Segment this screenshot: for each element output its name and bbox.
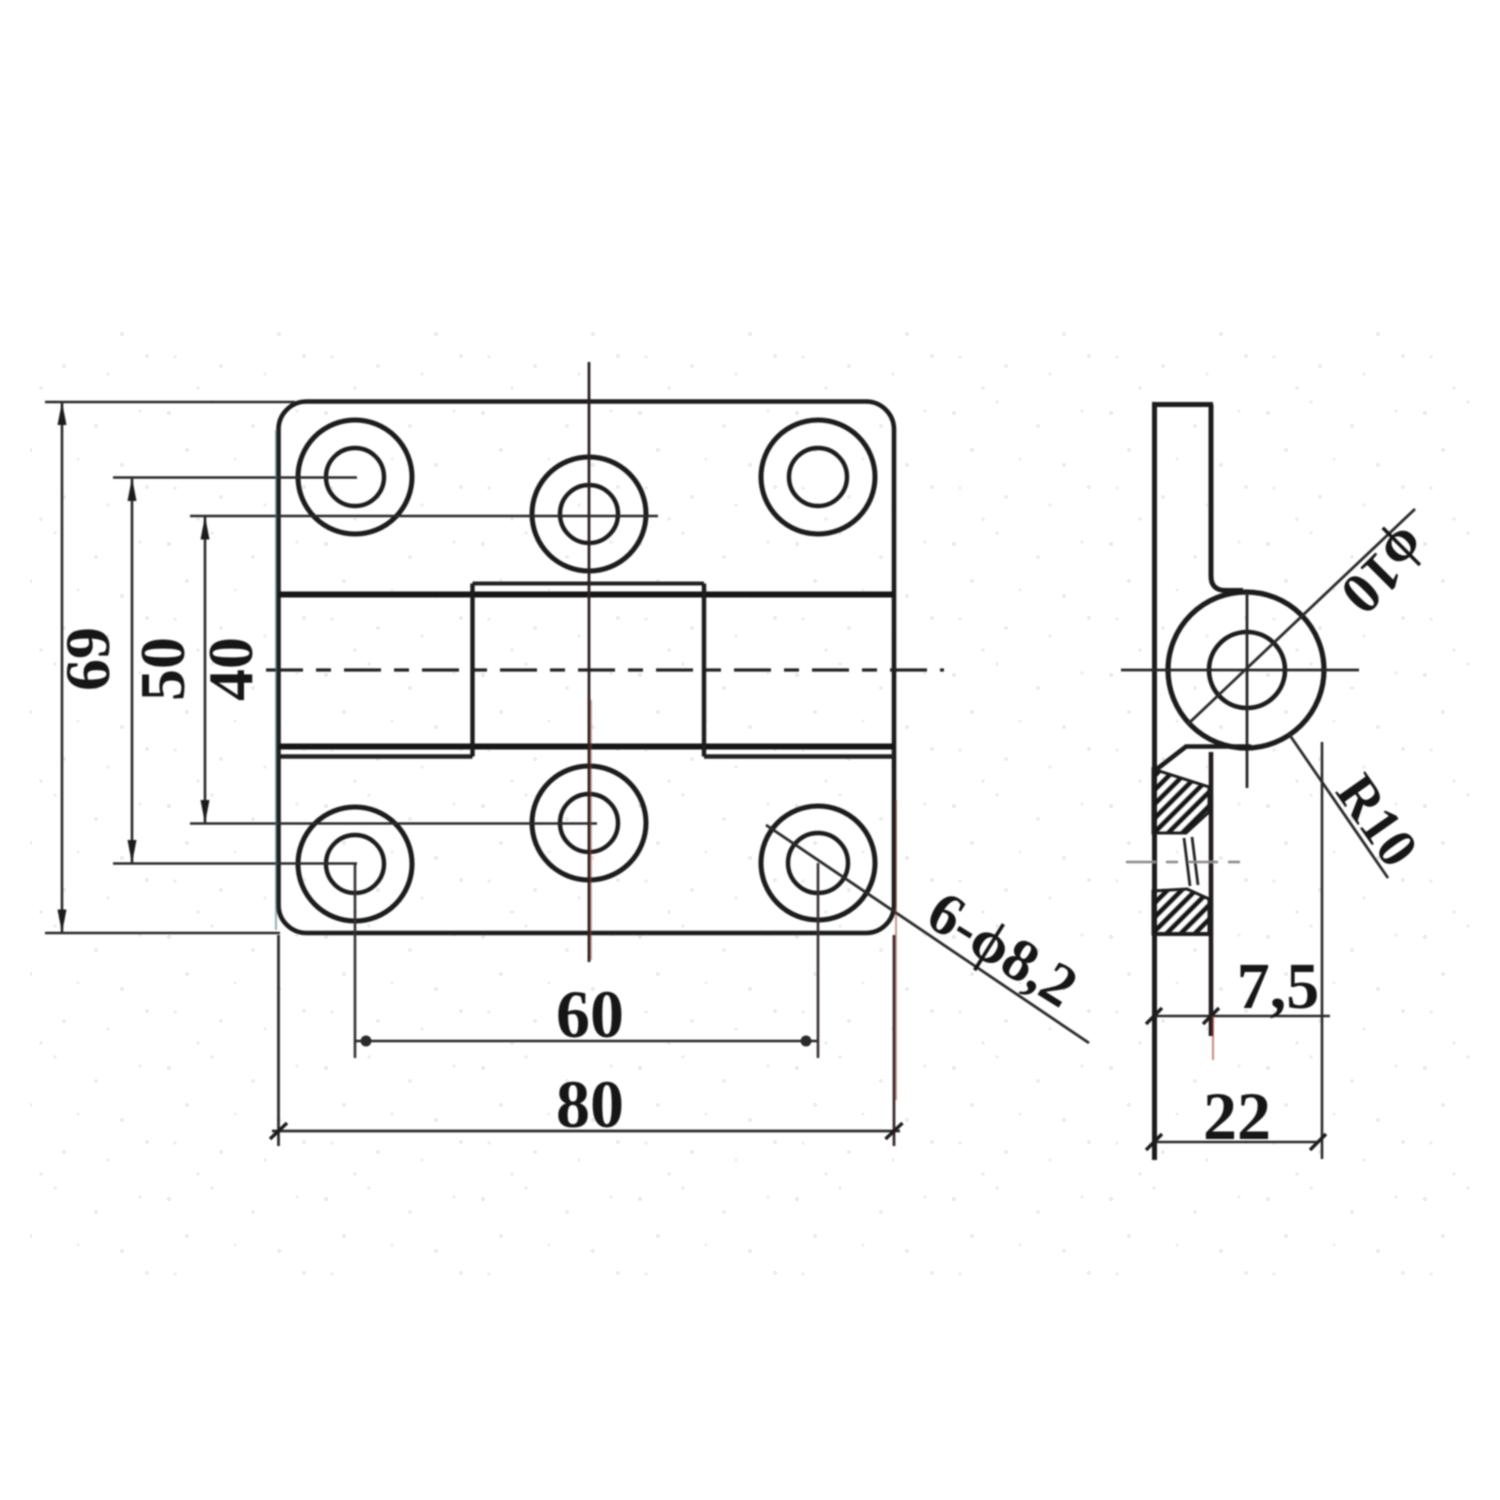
dimension 50 line xyxy=(128,478,137,864)
side view lower leaf right face xyxy=(1209,752,1214,1036)
dimension 69 extension line bottom xyxy=(45,932,280,935)
dimension 69 line xyxy=(58,402,67,933)
leader line phi10 xyxy=(1188,509,1415,724)
side view upper leaf right face xyxy=(1211,405,1243,591)
scan tint right edge xyxy=(895,800,897,1100)
leader text phi10 xyxy=(1329,515,1442,628)
dimension 60 text xyxy=(556,976,624,1052)
scan tint side lower face xyxy=(1212,1016,1214,1060)
upper hatched section xyxy=(1153,769,1209,833)
hole top-left outer xyxy=(298,420,412,534)
leader text R10 xyxy=(1324,763,1430,878)
dimension 40 line xyxy=(201,516,210,824)
dimension 60 line xyxy=(355,1036,817,1047)
hole bottom-middle outer xyxy=(532,766,646,880)
hinge leaf joint upper bold line xyxy=(279,592,895,598)
hole bottom-left outer xyxy=(298,807,412,921)
knuckle right vertical edge xyxy=(702,584,706,757)
hole top-right inner xyxy=(789,448,847,506)
step under knuckle xyxy=(1157,747,1251,770)
knuckle horizontal centerline xyxy=(1121,669,1359,672)
dimension 40 text xyxy=(195,637,266,701)
dimension 22 line xyxy=(1146,1134,1326,1150)
hole top-middle inner xyxy=(560,485,618,543)
leader line R10 xyxy=(1289,734,1388,878)
dimension 40 extension line top xyxy=(190,515,658,518)
leader text 6-phi8,2 xyxy=(916,878,1089,1020)
hole top-middle outer xyxy=(532,457,646,571)
svg-text:60: 60 xyxy=(556,976,624,1052)
hinge lower leaf edge left segment xyxy=(279,754,473,758)
dimension 7,5 line xyxy=(1146,1008,1330,1024)
hole top-right outer xyxy=(761,420,875,534)
knuckle outer circle side view xyxy=(1168,592,1324,748)
horizontal dashed centerline front view xyxy=(266,668,944,671)
dimension 80 right extension xyxy=(893,935,896,1146)
leader line 6-phi8,2 xyxy=(766,825,1089,1043)
hinge pin hole phi10 xyxy=(1209,632,1285,708)
svg-text:40: 40 xyxy=(195,637,266,701)
hole top-left inner xyxy=(326,448,384,506)
dimension 7,5 text xyxy=(1237,950,1320,1023)
bottom-left hole centerline extension xyxy=(354,864,357,1058)
knuckle vertical centerline xyxy=(1246,592,1249,788)
dimension 50 extension line bottom xyxy=(113,862,357,865)
dimension 50 text xyxy=(127,637,198,701)
side view bottom edge xyxy=(1153,932,1211,936)
scan tint center vertical xyxy=(590,700,592,960)
hole bottom-right inner xyxy=(788,833,848,893)
dimension 50 extension line top xyxy=(113,476,357,479)
svg-text:50: 50 xyxy=(127,637,198,701)
svg-text:69: 69 xyxy=(52,627,123,691)
svg-text:80: 80 xyxy=(556,1066,624,1142)
knuckle left vertical edge xyxy=(470,584,474,757)
dimension 40 extension line bottom xyxy=(190,822,597,825)
hole bottom-middle inner xyxy=(560,794,618,852)
side view top cap xyxy=(1152,402,1213,407)
scan tint left edge xyxy=(275,430,277,930)
hole bottom-left inner xyxy=(326,835,384,893)
hinge leaf joint lower bold line xyxy=(279,744,895,750)
hole bottom-right outer xyxy=(761,806,875,920)
countersink hole wall lines xyxy=(1184,837,1198,886)
hinge lower leaf edge right segment xyxy=(704,754,894,758)
dimension 69 extension line top xyxy=(45,401,295,404)
dimension 22 text xyxy=(1203,1078,1271,1154)
svg-text:22: 22 xyxy=(1203,1078,1271,1154)
side view left face xyxy=(1152,402,1157,1160)
hinge knuckle step upper line xyxy=(473,582,705,586)
dimension 80 text xyxy=(556,1066,624,1142)
svg-text:7,5: 7,5 xyxy=(1237,950,1320,1023)
dimension 80 left extension xyxy=(277,935,280,1146)
front view hinge outline xyxy=(279,402,895,934)
vertical centerline front view xyxy=(588,362,591,962)
lower hatched section xyxy=(1153,889,1209,934)
dimension 69 text xyxy=(52,627,123,691)
screw hole dashed centerline side view xyxy=(1126,861,1240,863)
bottom-right hole centerline extension xyxy=(817,863,820,1058)
extension line 22 right xyxy=(1321,742,1324,1159)
dimension 80 line xyxy=(270,1123,903,1139)
